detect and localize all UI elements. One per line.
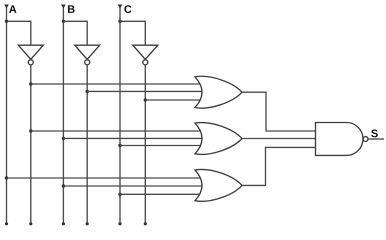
node B' to OR1 junction <box>86 90 89 93</box>
wire input A vertical <box>6 6 8 224</box>
node C' to OR1 junction <box>144 98 147 101</box>
wire OR3 input 3 <box>120 193 201 195</box>
wire OR2 input 3 <box>120 145 201 147</box>
label A <box>9 5 16 13</box>
label B <box>68 5 75 13</box>
node C to OR2 junction <box>118 144 121 147</box>
node A' to OR1 junction <box>29 82 32 85</box>
nand gate U1 <box>316 123 363 156</box>
inverter A (NOT gate) <box>18 45 43 59</box>
node A to OR3 junction <box>5 176 8 179</box>
node A bottom terminal <box>5 222 8 225</box>
inverter C bubble <box>143 60 148 65</box>
nand U1 bubble <box>363 137 368 142</box>
wire OR1 input 1 <box>31 83 201 85</box>
node B bottom terminal <box>62 222 65 225</box>
inverter C (NOT gate) <box>133 45 158 59</box>
wire A' vertical <box>30 65 32 224</box>
wire input C vertical <box>119 6 121 224</box>
wire OR3 input 1 <box>7 177 202 179</box>
inverter B bubble <box>85 60 90 65</box>
input arrow A <box>4 5 9 9</box>
node B to OR3 junction <box>62 184 65 187</box>
wire OR2 input 1 <box>31 130 201 132</box>
inverter B (NOT gate) <box>75 45 100 59</box>
or-gate G2 <box>195 123 242 155</box>
wire input B vertical <box>62 6 64 224</box>
node A branch junction <box>5 20 8 23</box>
wire G2 output to NAND input 2 <box>242 138 316 140</box>
wire OR1 input 3 <box>145 99 201 101</box>
node C' bottom terminal <box>144 222 147 225</box>
node B branch junction <box>62 20 65 23</box>
wire output S <box>368 138 384 140</box>
or-gate G1 <box>195 76 242 108</box>
node C branch junction <box>118 20 121 23</box>
wire B branch to inverter <box>63 21 87 45</box>
wire C' vertical <box>144 65 146 224</box>
node C to OR3 junction <box>118 193 121 196</box>
wire OR2 input 2 <box>63 137 203 139</box>
node B to OR2 junction <box>62 137 65 140</box>
node A' to OR2 junction <box>29 129 32 132</box>
input arrow B <box>61 5 66 9</box>
wire G3 output to NAND input 3 <box>242 147 316 185</box>
inverter A bubble <box>28 60 33 65</box>
wire A branch to inverter <box>7 21 31 45</box>
input arrow C <box>118 5 123 9</box>
wire C branch to inverter <box>120 21 145 45</box>
wire OR1 input 2 <box>87 90 203 92</box>
node C bottom terminal <box>118 222 121 225</box>
node A' bottom terminal <box>29 222 32 225</box>
node B' bottom terminal <box>86 222 89 225</box>
label S <box>371 130 378 138</box>
or-gate G3 <box>195 170 242 202</box>
wire B' vertical <box>86 65 88 224</box>
label C <box>124 5 131 13</box>
wire OR3 input 2 <box>63 185 203 187</box>
wire G1 output to NAND input 1 <box>242 92 316 131</box>
